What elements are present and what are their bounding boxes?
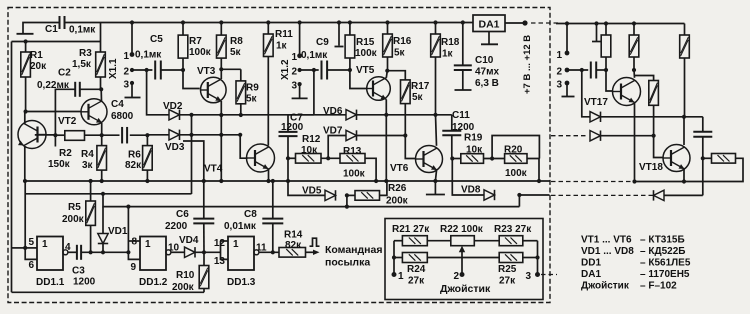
wire C1 left segment xyxy=(23,23,60,32)
wire VD7 anode link xyxy=(328,136,346,159)
svg-text:посылка: посылка xyxy=(325,257,370,269)
wire DD1.1 output xyxy=(68,251,77,253)
wire rail2 xyxy=(147,134,169,136)
wire VT18 collector xyxy=(683,117,685,145)
svg-text:3: 3 xyxy=(123,80,129,91)
svg-text:C4: C4 xyxy=(111,99,124,110)
svg-text:VT17: VT17 xyxy=(584,97,608,108)
wire +V top bus xyxy=(65,22,474,24)
connector X1.2 pin 2 xyxy=(298,68,302,72)
wire DD1.2 output xyxy=(171,251,185,253)
node R16 bottom VT5 collector xyxy=(387,57,389,71)
resistor R23 xyxy=(499,236,523,246)
svg-text:2: 2 xyxy=(556,67,562,78)
node rail2 at VD link xyxy=(189,133,193,137)
svg-text:47мх: 47мх xyxy=(475,67,500,78)
wire DD1.1 inputs to left column xyxy=(12,247,26,249)
wire DD1.3 output xyxy=(259,251,279,253)
svg-text:2: 2 xyxy=(453,271,459,282)
svg-text:100к: 100к xyxy=(189,47,212,58)
capacitor C5 0.1u xyxy=(154,61,156,80)
resistor R14 82k xyxy=(279,248,306,258)
svg-text:C6: C6 xyxy=(176,209,189,220)
svg-text:1: 1 xyxy=(42,239,48,250)
svg-text:0,1мк: 0,1мк xyxy=(135,50,162,61)
node R15 bottom xyxy=(348,68,352,72)
svg-text:X1.1: X1.1 xyxy=(108,58,119,79)
node X1.2 pin2 junction xyxy=(312,68,316,72)
svg-text:C3: C3 xyxy=(72,266,85,277)
connector X1.1 pin 2 xyxy=(130,68,134,72)
antenna stub bar xyxy=(17,33,34,35)
gate DD1.3 xyxy=(228,237,254,271)
diode right 3 reversed xyxy=(654,190,665,200)
wire C11 column to VD8 anode xyxy=(452,159,484,196)
connector X1.2 pin 1 xyxy=(298,20,302,24)
svg-text:R9: R9 xyxy=(246,83,259,94)
svg-text:DD1: DD1 xyxy=(581,258,601,269)
wire row1 xyxy=(394,240,402,242)
wire right fragment top bus xyxy=(556,23,685,25)
diode VD7 xyxy=(346,130,357,140)
connector X1.2 pin 3 xyxy=(298,82,302,86)
diode VD1 xyxy=(102,207,104,234)
svg-text:VD3: VD3 xyxy=(165,142,185,153)
wire dashed input 2 xyxy=(551,135,588,137)
wire to VT5 base xyxy=(350,70,367,89)
node VD4 cathode C6 R10 xyxy=(195,251,221,253)
transistor VT6 xyxy=(416,146,443,173)
wire C6 bottom xyxy=(203,223,205,252)
stub below VT1 base node xyxy=(54,135,56,146)
wire left column joystick xyxy=(393,241,395,275)
wire R3 bottom xyxy=(100,77,102,89)
transistor VT5 xyxy=(367,77,391,101)
wire R8 node to R9 xyxy=(221,68,241,70)
svg-text:12: 12 xyxy=(214,238,226,249)
svg-text:10к: 10к xyxy=(301,145,318,156)
wire C2 right xyxy=(80,88,101,90)
svg-text:6: 6 xyxy=(28,260,34,271)
wire C3 to node xyxy=(81,251,128,253)
node C2 R3 VT2 collector xyxy=(99,87,103,91)
wire VT1 base xyxy=(35,134,56,136)
gate DD1.1 xyxy=(37,237,63,271)
svg-text:200к: 200к xyxy=(172,282,195,293)
svg-text:R6: R6 xyxy=(128,150,141,161)
svg-text:100к: 100к xyxy=(355,48,378,59)
node VD2 cathode xyxy=(189,113,193,117)
svg-text:82к: 82к xyxy=(125,160,142,171)
svg-text:4: 4 xyxy=(65,242,71,253)
svg-text:X1.2: X1.2 xyxy=(280,59,291,80)
wire C7 top link xyxy=(288,114,314,116)
diode VD4 xyxy=(185,247,196,257)
svg-text:+7 В ... +12 В: +7 В ... +12 В xyxy=(522,35,533,94)
node VT2 emitter R2 R4 C4 xyxy=(100,133,104,137)
svg-text:150к: 150к xyxy=(48,159,71,170)
svg-text:R22 100к: R22 100к xyxy=(440,224,484,235)
capacitor C7 1200 xyxy=(287,115,289,132)
resistor R19 10k xyxy=(452,158,461,160)
svg-text:27к: 27к xyxy=(499,276,516,287)
svg-text:Джойстик: Джойстик xyxy=(581,281,630,292)
svg-text:VD2: VD2 xyxy=(163,101,183,112)
wire X1.2 pin2 to C9 xyxy=(300,69,319,71)
resistor R16 5k xyxy=(385,20,389,24)
svg-text:R13: R13 xyxy=(343,146,362,157)
connector right pin 3 xyxy=(565,81,570,86)
wire VT2 collector xyxy=(100,89,102,101)
wire resistor5 right corner xyxy=(684,158,743,181)
transistor VT18 xyxy=(663,145,690,172)
diode VD3 xyxy=(169,130,180,140)
resistor R18 1k xyxy=(433,20,437,24)
svg-text:10: 10 xyxy=(168,243,180,254)
node VD7 R17 VT6 base xyxy=(403,133,407,137)
svg-text:R25: R25 xyxy=(498,264,517,275)
svg-text:– КД522Б: – КД522Б xyxy=(640,246,685,257)
wire VT5 emitter column xyxy=(385,115,387,181)
connector right pin 1 xyxy=(565,21,569,25)
wire capacitor bottom xyxy=(702,137,704,196)
svg-text:R5: R5 xyxy=(68,202,81,213)
capacitor right input xyxy=(590,62,592,79)
wire output arrow xyxy=(306,251,316,253)
stub bar near R15 xyxy=(338,23,340,46)
wire R18 bottom to rail1 and VT6 collector xyxy=(435,57,437,115)
node R12 R13 junction xyxy=(326,156,330,160)
pulse symbol xyxy=(310,238,320,246)
wire VT1 emitter below xyxy=(24,146,26,181)
wire DA1 output xyxy=(505,22,525,24)
wire pin2 junction down to rail1 xyxy=(313,70,315,115)
wire C8 bottom xyxy=(272,223,274,252)
capacitor C6 2200 xyxy=(203,181,205,219)
wire DD1.1 input 6 xyxy=(25,248,37,260)
svg-text:R10: R10 xyxy=(176,270,195,281)
wire resistor2 to VT17 collector xyxy=(633,57,635,70)
wire VT17 emitter column xyxy=(634,103,636,182)
wire R17 bottom to VD7 node xyxy=(404,104,406,136)
diode right 1 xyxy=(590,112,601,122)
wire VT4 emitter xyxy=(268,169,270,181)
wire dashed pin3 out xyxy=(541,274,557,276)
svg-text:R8: R8 xyxy=(230,36,243,47)
svg-text:200к: 200к xyxy=(62,214,85,225)
node rail3 riser on loop xyxy=(101,192,105,196)
node C4 R6 junction xyxy=(145,133,149,137)
wire diode3 anode xyxy=(664,194,703,196)
svg-text:R3: R3 xyxy=(79,48,92,59)
node VT1 base xyxy=(53,133,57,137)
joystick box xyxy=(385,219,543,300)
ground VT6 emitter xyxy=(434,181,436,195)
transistor VT4 xyxy=(247,144,275,172)
svg-text:– К561ЛЕ5: – К561ЛЕ5 xyxy=(640,258,691,269)
svg-text:6800: 6800 xyxy=(111,111,134,122)
wire resistor4 bottom xyxy=(653,105,655,135)
wire VT18 emitter xyxy=(683,170,685,182)
resistor R26 200k xyxy=(347,194,355,196)
svg-text:VT6: VT6 xyxy=(390,163,409,174)
wire VT6 emitter xyxy=(435,171,436,182)
wire node to VT17 base xyxy=(606,70,613,91)
svg-text:13: 13 xyxy=(214,256,226,267)
wire R9 bottom xyxy=(240,104,242,115)
svg-text:C2: C2 xyxy=(58,68,71,79)
svg-text:VD1 ... VD8: VD1 ... VD8 xyxy=(581,246,634,257)
svg-text:C11: C11 xyxy=(452,110,470,121)
svg-text:5к: 5к xyxy=(230,47,242,58)
wire VT6 base xyxy=(405,136,415,159)
svg-text:DA1: DA1 xyxy=(478,19,499,31)
wire X1.1 pin2 to C5 xyxy=(132,69,152,71)
wire C4 section xyxy=(102,134,120,136)
wire C5 to R7 xyxy=(161,69,183,71)
svg-text:R2: R2 xyxy=(59,148,72,159)
resistor R11 1k xyxy=(266,20,270,24)
svg-text:VD8: VD8 xyxy=(461,185,481,196)
wire VD8 node to rail3 xyxy=(518,195,520,207)
resistor R9 5k xyxy=(240,69,242,81)
svg-text:VT4: VT4 xyxy=(204,164,223,175)
wire R20 bypass loop xyxy=(492,136,539,159)
wire R20 right corner to bus xyxy=(527,159,539,182)
wire C11 top xyxy=(451,115,453,131)
svg-text:C1: C1 xyxy=(45,24,58,35)
svg-text:R17: R17 xyxy=(411,81,430,92)
wire VD link vertical xyxy=(191,115,193,194)
svg-text:R14: R14 xyxy=(284,230,303,241)
svg-text:R12: R12 xyxy=(302,134,321,145)
svg-text:2: 2 xyxy=(123,67,129,78)
wire VD5 node to rail3 xyxy=(346,195,348,206)
svg-text:R18: R18 xyxy=(441,37,460,48)
transistor VT2 xyxy=(81,99,107,125)
wire R1-R3 top rail xyxy=(12,41,101,43)
svg-text:1200: 1200 xyxy=(452,122,475,133)
svg-text:R19: R19 xyxy=(464,133,483,144)
svg-text:DD1.3: DD1.3 xyxy=(227,277,256,288)
wire VT5 collector xyxy=(386,71,387,78)
svg-text:– F–102: – F–102 xyxy=(640,281,677,292)
wire loop below bus left xyxy=(25,193,191,195)
wire left column down xyxy=(11,42,13,293)
resistor R15 100k xyxy=(348,20,352,24)
node VT3 emitter rail xyxy=(219,113,223,117)
svg-text:– 1170ЕН5: – 1170ЕН5 xyxy=(640,269,690,280)
svg-text:1,5к: 1,5к xyxy=(72,59,92,70)
resistor R20 100k xyxy=(484,158,505,160)
resistor R2 150k xyxy=(55,134,64,136)
svg-text:VT5: VT5 xyxy=(356,65,375,76)
wire VT2 base xyxy=(26,111,81,113)
wire C7 bottom xyxy=(287,136,289,181)
node R5 top xyxy=(89,179,93,183)
svg-text:R21 27к: R21 27к xyxy=(392,224,430,235)
capacitor C10 47u xyxy=(461,20,465,24)
svg-text:3: 3 xyxy=(291,81,297,92)
transistor VT1 xyxy=(18,121,46,149)
diode VD6 xyxy=(346,110,357,120)
resistor R10 200k xyxy=(203,252,205,265)
svg-text:10к: 10к xyxy=(466,145,483,156)
connector X1.1 pin 3 xyxy=(130,81,134,85)
wire VT1 collector up xyxy=(24,112,26,124)
svg-text:27к: 27к xyxy=(408,276,425,287)
svg-text:Джойстик: Джойстик xyxy=(440,283,491,295)
wire row2 xyxy=(394,257,402,259)
ground X1.2 pin3 xyxy=(299,84,301,98)
svg-text:6,3 В: 6,3 В xyxy=(475,78,499,89)
svg-text:– КТ315Б: – КТ315Б xyxy=(640,235,685,246)
svg-text:1к: 1к xyxy=(276,41,288,52)
wire pin2 junction down to diode1 xyxy=(582,70,590,117)
wire ground bus xyxy=(25,180,550,182)
svg-text:Командная: Командная xyxy=(325,244,382,256)
svg-text:1: 1 xyxy=(291,52,297,63)
svg-text:VD4: VD4 xyxy=(179,235,199,246)
capacitor C2 0.22u xyxy=(74,82,76,97)
wire VD5 anode drop xyxy=(288,181,325,195)
capacitor C1 xyxy=(59,16,61,29)
node R19 R20 junction xyxy=(490,156,494,160)
resistor R25 xyxy=(499,253,523,263)
wire to VT3 base xyxy=(183,70,200,89)
capacitor right top xyxy=(702,117,704,132)
wire dashed +V interconnect xyxy=(531,22,560,24)
wire DD1.3 input loop xyxy=(221,240,229,242)
wire VT18 base drop xyxy=(654,136,663,158)
wire resistor3 bottom xyxy=(684,58,686,117)
node VD5 cathode xyxy=(345,193,349,197)
svg-text:0,1мк: 0,1мк xyxy=(69,25,96,36)
wire bus-end down to DD1.1 inputs xyxy=(24,181,26,248)
svg-text:VT1 ... VT6: VT1 ... VT6 xyxy=(581,235,632,246)
svg-text:1: 1 xyxy=(145,239,151,250)
node rail2 at VT3 emitter column xyxy=(238,133,242,137)
svg-text:1200: 1200 xyxy=(73,277,96,288)
connector X1.1 pin 1 xyxy=(131,23,133,55)
wiper R22 xyxy=(461,250,463,275)
svg-text:R20: R20 xyxy=(504,145,523,156)
svg-text:3: 3 xyxy=(556,80,562,91)
main encoder dashed border xyxy=(8,8,550,303)
node VT1 emitter at ground bus xyxy=(23,179,27,183)
wire rail1 right of VD6 xyxy=(357,114,452,116)
svg-text:R11: R11 xyxy=(275,29,293,40)
resistor right 5 horizontal xyxy=(703,157,712,159)
svg-text:11: 11 xyxy=(256,243,267,254)
wire R2 right xyxy=(85,134,102,136)
diode VD2 xyxy=(169,110,180,120)
ground right pin 3 xyxy=(566,83,568,97)
svg-text:R15: R15 xyxy=(356,37,375,48)
resistor right 3 hatched xyxy=(684,24,686,36)
resistor right 1 plain xyxy=(604,21,608,25)
resistor R4 3k xyxy=(101,135,103,145)
svg-text:DD1.2: DD1.2 xyxy=(139,277,168,288)
svg-text:R4: R4 xyxy=(81,149,94,160)
transistor VT3 xyxy=(201,77,227,103)
wire link bus to rail xyxy=(100,23,102,42)
node R8 bottom VT3 collector xyxy=(220,58,222,69)
svg-text:3: 3 xyxy=(525,271,531,282)
svg-text:C8: C8 xyxy=(244,209,257,220)
regulator DA1 xyxy=(473,15,505,32)
wire VT3 collector xyxy=(220,69,222,79)
svg-text:1200: 1200 xyxy=(281,122,304,133)
node VT2 base wire xyxy=(24,109,28,113)
node C7 R12 tap xyxy=(286,156,290,160)
ground X1.1 pin3 xyxy=(131,83,133,98)
resistor R5 200k xyxy=(86,201,96,225)
wire C9 to R15 xyxy=(327,69,350,71)
svg-text:VT18: VT18 xyxy=(639,162,663,173)
wire C11 bottom xyxy=(451,135,453,158)
diode VD5 xyxy=(325,190,336,200)
node pin2 junction right xyxy=(580,68,584,72)
svg-text:2: 2 xyxy=(291,67,297,78)
wire VD7 cathode to R17 column xyxy=(357,135,406,137)
svg-text:C5: C5 xyxy=(150,34,163,45)
wire pin2 to capacitor xyxy=(567,69,588,71)
svg-text:R23 27к: R23 27к xyxy=(494,224,532,235)
gate DD1.2 xyxy=(140,237,166,271)
resistor right 4 hatched xyxy=(634,76,654,81)
wire VD8 node to border xyxy=(519,194,549,196)
svg-text:VD6: VD6 xyxy=(323,106,343,117)
svg-text:9: 9 xyxy=(130,262,136,273)
svg-text:VD5: VD5 xyxy=(302,186,322,197)
resistor R8 5k xyxy=(219,20,223,24)
stub bar left of resistor xyxy=(594,21,598,25)
svg-text:0,01мк: 0,01мк xyxy=(224,221,257,232)
ground DA1 xyxy=(488,32,490,45)
svg-text:100к: 100к xyxy=(505,168,528,179)
node pin2 junction xyxy=(145,68,149,72)
wire VT3 emitter column to ground bus xyxy=(220,115,222,181)
wire VD2 cathode rail1 xyxy=(180,114,347,116)
wire VT5 emitter down xyxy=(385,100,387,115)
diode VD8 xyxy=(484,190,495,200)
wire R13 right corner xyxy=(365,158,376,181)
resistor R7 100k xyxy=(181,20,185,24)
svg-text:5к: 5к xyxy=(246,94,258,105)
svg-text:R16: R16 xyxy=(393,36,412,47)
transistor VT17 xyxy=(613,78,641,106)
wire R16 node to R17 xyxy=(387,71,405,80)
capacitor C9 0.1u xyxy=(321,61,323,80)
svg-text:1: 1 xyxy=(556,50,562,61)
wire R1 bottom to VT2 base node xyxy=(25,77,27,112)
wire VT4 base drop xyxy=(240,135,247,158)
wire R26 right corner to bus xyxy=(380,181,387,195)
wire dashed diode3 line xyxy=(551,194,654,196)
svg-text:3к: 3к xyxy=(82,160,94,171)
wire DD1.2 input loop xyxy=(126,250,130,254)
capacitor C11 1200 xyxy=(442,130,461,132)
svg-text:VT3: VT3 xyxy=(197,66,216,77)
resistor right 2 hatched xyxy=(632,21,636,25)
resistor R12 10k xyxy=(288,157,296,159)
svg-text:R7: R7 xyxy=(189,36,202,47)
svg-text:8: 8 xyxy=(131,237,137,248)
svg-text:R24: R24 xyxy=(407,264,426,275)
wire stub rail2 to C6 column xyxy=(183,141,204,181)
wire bottom return xyxy=(12,291,205,293)
